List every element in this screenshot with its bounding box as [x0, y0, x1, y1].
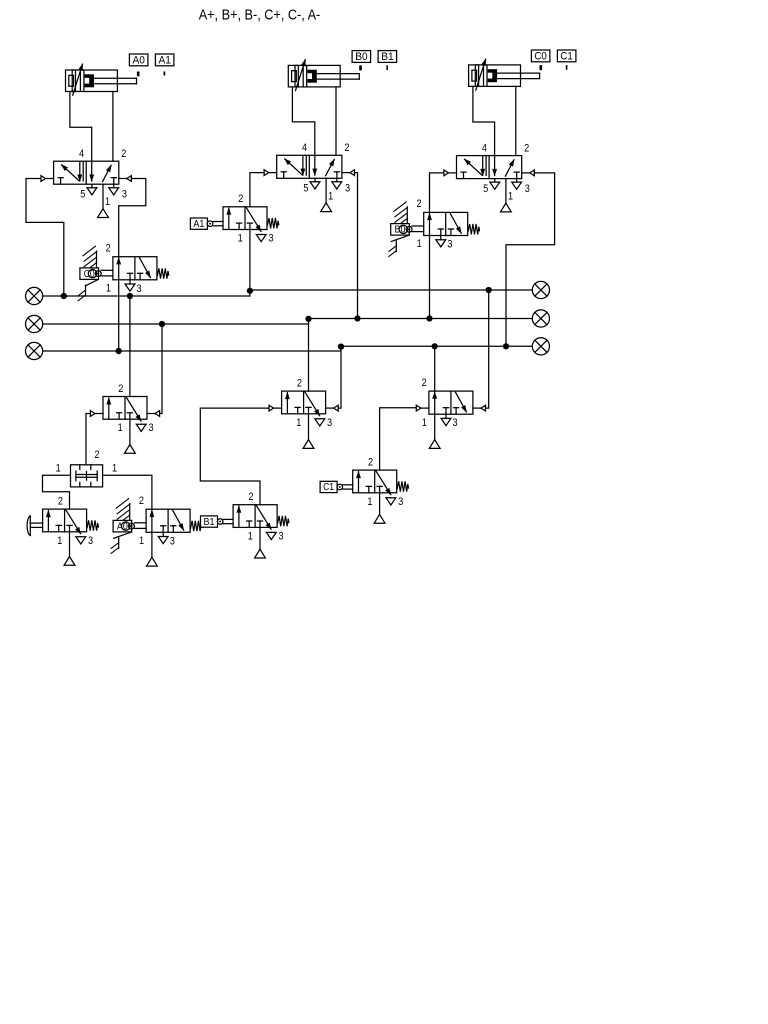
wire cyl C left port to valve C port 4: [473, 86, 495, 155]
wire V3 right pilot to bus 1: [486, 290, 489, 408]
start valve (3/2 push-button): [43, 509, 87, 532]
svg-text:2: 2: [58, 496, 63, 508]
supply A0 valve: [151, 532, 153, 557]
wire V1 right pilot to bus 2: [160, 324, 162, 414]
wall and roller C0: [96, 251, 98, 268]
svg-text:1: 1: [139, 535, 144, 547]
wire B0 port 1 to bus 2: [429, 236, 431, 319]
svg-text:1: 1: [417, 238, 422, 250]
junction (118.7,351): [116, 348, 122, 354]
wire cyl B left port to valve B port 4: [292, 87, 314, 155]
svg-text:B1: B1: [381, 51, 393, 63]
svg-text:1: 1: [238, 233, 243, 245]
supply V3: [434, 414, 436, 439]
svg-text:2: 2: [416, 198, 421, 210]
svg-text:B1: B1: [204, 517, 215, 528]
wire B0 port 2 to valve C left pilot: [430, 173, 444, 213]
push-button actuator: [30, 522, 42, 524]
svg-text:5: 5: [80, 188, 85, 200]
svg-text:2: 2: [94, 449, 99, 461]
label C1: [557, 50, 576, 62]
wire cyl A right port to valve A port 2: [112, 92, 114, 162]
svg-text:A0: A0: [133, 55, 145, 67]
wire V1 left pilot to AND valve outlet: [86, 414, 90, 465]
svg-text:1: 1: [367, 496, 372, 508]
label B1: [378, 51, 397, 63]
bus line 2 left segment: [43, 323, 309, 325]
svg-text:1: 1: [508, 191, 513, 203]
cylinder C (double-acting, 1C): [469, 65, 479, 87]
svg-text:2: 2: [121, 148, 126, 160]
wire AND right inlet to A0 port 2: [103, 475, 152, 509]
junction (129.9,296): [127, 293, 133, 299]
svg-text:1: 1: [105, 196, 110, 208]
svg-text:3: 3: [137, 283, 142, 295]
svg-text:3: 3: [88, 535, 93, 547]
svg-text:1: 1: [56, 462, 61, 474]
svg-text:C1: C1: [560, 51, 572, 63]
ruler tick B1: [386, 65, 388, 70]
svg-text:3: 3: [447, 239, 452, 251]
wire valve C right pilot to bus 3: [506, 173, 555, 346]
svg-text:4: 4: [482, 142, 487, 154]
supply B1 valve: [259, 527, 261, 549]
roller and label C1: [320, 481, 337, 492]
limit valve C1 (3/2 roller): [353, 470, 397, 493]
bus 2 right terminator: [532, 310, 549, 327]
group valve V1 (3/2 double pilot): [103, 397, 147, 420]
ruler tick C1: [566, 65, 568, 70]
pilot left V2: [274, 407, 282, 409]
pilot left V3: [421, 407, 429, 409]
junction (506,346.3): [503, 343, 509, 349]
bus 3 left terminator: [25, 342, 42, 359]
label B0: [352, 51, 371, 63]
junction (249.9,290.8): [247, 288, 253, 294]
wire cyl C right port to valve C port 2: [515, 86, 517, 155]
svg-text:4: 4: [302, 142, 307, 154]
junction (162,324): [159, 321, 165, 327]
junction (429.5,318.5): [426, 315, 432, 321]
bus line 2 right segment: [309, 318, 533, 320]
group valve V3 (3/2 double pilot, actuated): [429, 391, 473, 414]
svg-text:1: 1: [57, 535, 62, 547]
svg-text:3: 3: [345, 183, 350, 195]
wire valve B right pilot to bus 2: [355, 173, 358, 319]
svg-text:5: 5: [303, 183, 308, 195]
bus 1 left terminator: [25, 287, 42, 304]
svg-text:2: 2: [118, 383, 123, 395]
svg-text:3: 3: [170, 535, 175, 547]
bus 2 left terminator: [25, 315, 42, 332]
wire V2 port 2 to bus 2 (through jog): [308, 319, 310, 392]
limit valve C0 (3/2 roller, actuated): [113, 257, 157, 280]
supply start valve: [69, 532, 71, 557]
svg-text:1: 1: [118, 422, 123, 434]
svg-text:1: 1: [328, 190, 333, 202]
roller and label B1: [201, 516, 218, 527]
svg-text:C1: C1: [323, 482, 334, 493]
5/2-way impulse valve B: [277, 155, 342, 178]
junction (63.8,296): [61, 293, 67, 299]
wire cyl B right port to valve B port 2: [335, 87, 337, 155]
svg-text:B0: B0: [355, 51, 367, 63]
svg-text:3: 3: [525, 183, 530, 195]
pilot right V1: [147, 413, 155, 415]
cylinder A (double-acting, 1A): [66, 70, 76, 92]
svg-text:2: 2: [238, 193, 243, 205]
ruler tick A1: [164, 72, 166, 76]
svg-text:3: 3: [279, 530, 284, 542]
svg-text:3: 3: [268, 233, 273, 245]
two-pressure (AND) valve: [71, 465, 103, 487]
wire A1 port 1 to bus 1 (through jog): [249, 230, 251, 297]
cylinder B (double-acting, 1B): [288, 65, 298, 87]
bus 1 right terminator: [532, 281, 549, 298]
wire A1 port 2 to valve B left pilot: [250, 173, 264, 207]
wire valve A right pilot to C0 port 2: [119, 179, 146, 257]
svg-text:3: 3: [122, 188, 127, 200]
svg-text:A1: A1: [193, 219, 204, 230]
svg-text:2: 2: [297, 378, 302, 390]
limit valve B0 (3/2 roller, actuated): [424, 212, 468, 235]
wire C0 port 1 to bus 3: [118, 280, 120, 351]
junction (488.7,290): [486, 287, 492, 293]
bus line 1 right segment: [250, 289, 532, 291]
svg-text:4: 4: [79, 148, 84, 160]
limit valve A1 (3/2 roller): [223, 207, 267, 230]
wire cyl A left port to valve A port 4: [70, 92, 92, 162]
bus 3 right terminator: [532, 338, 549, 355]
wire V2 right pilot to bus 3 (through jog): [338, 346, 341, 408]
bus line 1 left segment: [43, 295, 250, 297]
5/2-way impulse valve A: [54, 161, 119, 184]
limit valve B1 (3/2 roller): [233, 505, 277, 528]
wire valve A left pilot to bus 1: [26, 179, 64, 297]
5/2-way impulse valve C: [457, 156, 522, 179]
pilot right V3: [473, 407, 481, 409]
svg-text:5: 5: [483, 183, 488, 195]
svg-text:3: 3: [148, 422, 153, 434]
svg-text:2: 2: [344, 142, 349, 154]
junction (357.5,318.5): [354, 315, 360, 321]
junction (434.7,346.3): [432, 343, 438, 349]
supply V1: [129, 419, 131, 444]
svg-text:3: 3: [453, 417, 458, 429]
svg-text:A1: A1: [159, 55, 171, 67]
svg-text:1: 1: [106, 282, 111, 294]
wire B1 port 2 to V2 left pilot: [200, 408, 269, 505]
supply V2: [308, 414, 310, 440]
svg-text:1: 1: [112, 462, 117, 474]
wire AND left inlet to start valve port 2: [43, 475, 71, 509]
ruler tick A0: [137, 72, 140, 77]
svg-text:2: 2: [106, 243, 111, 255]
svg-text:2: 2: [524, 142, 529, 154]
wall and roller B0: [406, 207, 408, 224]
junction (341,346.6): [338, 344, 344, 350]
pilot left V1: [95, 413, 103, 415]
label A0: [129, 54, 148, 66]
pilot right V2: [326, 407, 334, 409]
svg-text:2: 2: [368, 457, 373, 469]
svg-text:2: 2: [248, 491, 253, 503]
svg-text:3: 3: [327, 417, 332, 429]
bus line 3 left segment: [43, 350, 341, 352]
wire C1 port 2 to V3 left pilot: [380, 408, 417, 470]
wall and roller A0: [129, 504, 131, 521]
supply C1 valve: [379, 493, 381, 515]
label C0: [531, 50, 550, 62]
svg-text:1: 1: [248, 530, 253, 542]
svg-text:C0: C0: [534, 51, 546, 63]
ruler tick B0: [359, 65, 362, 70]
roller and label A1: [190, 218, 207, 229]
ruler tick C0: [540, 65, 543, 70]
junction (308.5,318.8): [305, 316, 311, 322]
svg-text:1: 1: [422, 417, 427, 429]
svg-text:2: 2: [139, 495, 144, 507]
label A1: [155, 54, 174, 66]
svg-text:A+, B+, B-, C+, C-, A-: A+, B+, B-, C+, C-, A-: [199, 8, 321, 24]
group valve V2 (3/2 double pilot): [282, 391, 326, 414]
svg-text:1: 1: [296, 417, 301, 429]
wire V3 port 2 to bus 3: [434, 346, 436, 391]
wire V1 port 2 to bus 1: [129, 296, 131, 397]
svg-text:3: 3: [398, 496, 403, 508]
svg-text:2: 2: [422, 377, 427, 389]
bus line 3 right segment: [341, 345, 533, 347]
limit valve A0 (3/2 roller, actuated): [146, 509, 190, 532]
